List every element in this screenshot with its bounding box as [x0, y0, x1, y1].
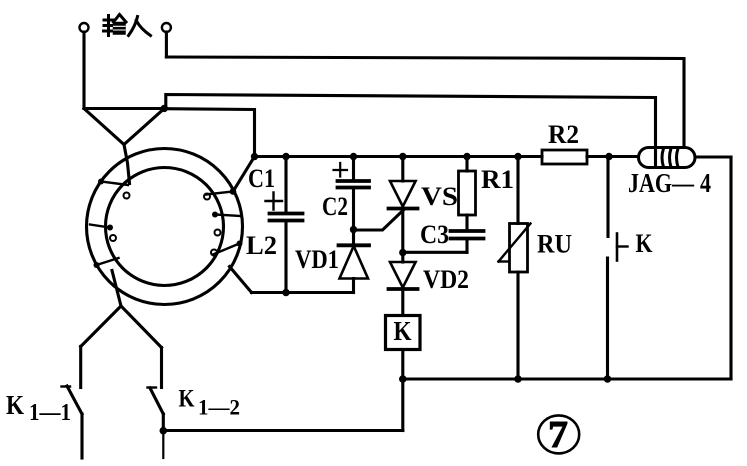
diode VD1: [339, 230, 370, 293]
wire: L2 lower-right diagonal to lower bus: [230, 267, 252, 293]
node: bottom bus at RU: [514, 375, 522, 383]
label VD2: [423, 265, 469, 294]
node: C2/VD1/gate junction: [350, 226, 357, 233]
label R1: [481, 165, 514, 194]
relay coil JAG-4: [639, 148, 696, 168]
L2 winding tick lower-right: [211, 241, 243, 256]
L2 winding tick upper-right: [204, 188, 236, 199]
wire: second run junction to JAG-4 left tap: [166, 95, 656, 167]
wire: L2 bottom lead: [112, 271, 121, 307]
wire: bottom V to K1-1: [81, 306, 121, 347]
svg-text:VS: VS: [421, 182, 458, 211]
diode VD2: [389, 253, 418, 316]
label 输入 (input): [104, 15, 151, 36]
wire: relay return run: [163, 429, 402, 432]
svg-text:C1: C1: [248, 164, 275, 193]
L2 winding tick upper-left: [98, 179, 130, 199]
svg-text:RU: RU: [537, 230, 572, 259]
wire: main bus left section: [255, 155, 543, 158]
label K1-2: [179, 386, 241, 420]
capacitor C1: [266, 157, 303, 293]
svg-text:R2: R2: [548, 120, 579, 149]
label JAG-4: [628, 168, 711, 198]
wire: junction right then down to bus: [164, 109, 254, 157]
label C3: [420, 220, 449, 249]
wire: main bus coil to right edge: [695, 155, 731, 158]
svg-text:C3: C3: [420, 220, 449, 249]
svg-text:K: K: [179, 386, 195, 413]
node: top junction: [161, 105, 168, 112]
svg-text:R1: R1: [481, 165, 514, 194]
L2 winding tick lower-left: [94, 258, 119, 268]
node: VS cathode junction: [399, 249, 406, 256]
label K1-1: [6, 390, 71, 426]
varistor RU: [499, 157, 531, 380]
switch K1-1: [62, 347, 83, 459]
svg-text:K: K: [6, 390, 24, 420]
wire: bottom bus: [403, 377, 731, 380]
node: bottom bus at K: [399, 375, 407, 383]
inductor L2 toroid outer: [87, 149, 243, 305]
wire: relay K box to return run: [401, 379, 404, 431]
wire: K1-2 stub down: [162, 431, 164, 458]
wire: entry into L2 winding: [124, 145, 130, 184]
svg-text:4: 4: [700, 168, 711, 198]
wire: V right arm to L2: [124, 109, 164, 145]
label K (contact): [636, 229, 654, 258]
label VD1: [295, 245, 339, 274]
resistor R2: [542, 150, 587, 164]
wire: terminal A down: [82, 32, 85, 109]
figure number 7: [538, 414, 579, 456]
switch K contact: [608, 157, 628, 380]
svg-text:JAG—: JAG—: [628, 168, 695, 198]
label RU: [537, 230, 572, 259]
svg-text:7: 7: [548, 414, 568, 456]
svg-text:K: K: [636, 229, 654, 258]
node: bus at VS: [399, 153, 406, 160]
node: bus at RU: [514, 153, 521, 160]
capacitor C2: [334, 157, 370, 230]
L2 winding tick left: [90, 225, 116, 242]
wire: gate of VS: [354, 209, 405, 230]
label C2: [322, 192, 348, 221]
wire: right edge down: [729, 157, 732, 379]
thyristor VS: [389, 157, 418, 253]
svg-text:L2: L2: [246, 231, 277, 260]
label R2: [548, 120, 579, 149]
label VS: [421, 182, 458, 211]
wire: main bus R2 to coil: [587, 155, 639, 158]
svg-text:1—1: 1—1: [29, 400, 71, 426]
node: bus at C1: [282, 153, 289, 160]
L2 winding tick right: [212, 212, 241, 236]
node: bus left corner: [251, 153, 258, 160]
svg-text:VD1: VD1: [295, 245, 339, 274]
wire: top run B to JAG-4 right tap: [166, 57, 684, 147]
wire: A horizontal to junction: [84, 107, 164, 110]
node: lower bus at C1: [282, 289, 289, 296]
svg-text:C2: C2: [322, 192, 348, 221]
wire: K box to bottom bus: [401, 350, 404, 380]
node: bus at switch K: [605, 153, 612, 160]
node: bottom bus at switch K: [604, 375, 612, 383]
label L2: [246, 231, 277, 260]
node: K1-2 bottom junction: [160, 427, 168, 435]
wire: lower-left bus: [252, 291, 354, 294]
node: bus at C2: [350, 153, 357, 160]
wire: terminal B down: [165, 32, 168, 57]
svg-text:VD2: VD2: [423, 265, 469, 294]
wire: bottom V to K1-2: [121, 306, 162, 348]
wire: V left arm to L2: [84, 109, 124, 145]
node: bus at R1: [463, 153, 470, 160]
switch K1-2: [148, 348, 164, 431]
svg-text:1—2: 1—2: [198, 395, 240, 420]
wire: bus diagonal to L2 upper right: [233, 157, 255, 192]
relay coil K box: [386, 316, 421, 350]
label C1: [248, 164, 275, 193]
inductor L2 toroid inner: [106, 168, 224, 286]
resistor R1: [459, 157, 476, 230]
input terminal B: [162, 23, 171, 32]
svg-text:K: K: [394, 316, 412, 346]
input terminal A: [80, 23, 89, 32]
capacitor C3: [403, 231, 484, 252]
